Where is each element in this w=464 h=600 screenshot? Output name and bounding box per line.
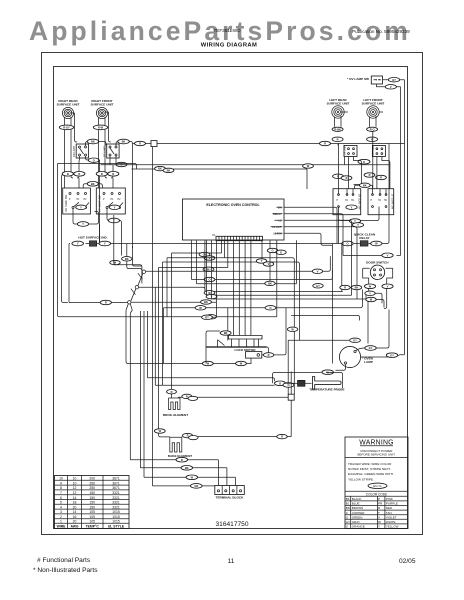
ladder row y315.5	[291, 316, 359, 321]
svg-text:WIRE: WIRE	[57, 524, 67, 528]
wire label oval RF leads	[93, 125, 107, 130]
svg-text:GN-YL: GN-YL	[373, 484, 383, 488]
svg-text:250: 250	[89, 486, 95, 490]
svg-text:14: 14	[73, 496, 77, 500]
wire label ovals broil run	[182, 394, 198, 400]
svg-text:BK: BK	[185, 466, 189, 470]
svg-text:LF SURF SW: LF SURF SW	[391, 194, 394, 210]
svg-text:20: 20	[73, 505, 77, 509]
wire label oval lamp bl	[322, 370, 333, 375]
EOC terminal labels	[272, 205, 282, 235]
surface unit P3 left rear	[327, 98, 350, 118]
svg-text:W: W	[378, 520, 381, 524]
svg-text:V: V	[268, 262, 270, 266]
wire LR limiter bottom to surf sw	[349, 157, 362, 189]
surface switch SW8 left front	[368, 189, 394, 215]
svg-text:R-O: R-O	[370, 127, 375, 131]
wire label oval relay right	[371, 241, 382, 246]
wire L2 drop to LR limiter	[153, 144, 339, 486]
surface unit P4 left front	[362, 98, 385, 118]
svg-text:11: 11	[228, 558, 235, 565]
wire label oval above limiter2	[118, 139, 130, 144]
svg-text:TEMPERATURE PROBE: TEMPERATURE PROBE	[309, 388, 344, 392]
svg-text:Y: Y	[369, 291, 371, 295]
svg-text:R: R	[369, 173, 371, 177]
svg-text:PINK: PINK	[386, 497, 393, 501]
svg-text:6: 6	[60, 496, 62, 500]
wire label ovals above LR limiter	[332, 137, 378, 141]
svg-text:GY: GY	[390, 353, 394, 357]
svg-text:10: 10	[59, 477, 63, 481]
limiter SW3 left rear	[344, 144, 357, 156]
svg-text:O: O	[93, 158, 95, 162]
ladder row y287.2 from pin	[139, 287, 275, 385]
svg-text:GY: GY	[369, 346, 373, 350]
svg-text:3671: 3671	[112, 486, 120, 490]
svg-text:BK: BK	[204, 300, 208, 304]
EOC terminal leader lines	[271, 207, 283, 233]
svg-text:V: V	[387, 253, 389, 257]
svg-text:BLUE: BLUE	[352, 502, 360, 506]
svg-text:Y: Y	[77, 242, 79, 246]
svg-text:R-GY: R-GY	[63, 126, 70, 130]
svg-text:RELAY: RELAY	[359, 236, 370, 240]
svg-text:TRACER WIRE: WIRE COLOR: TRACER WIRE: WIRE COLOR	[348, 462, 392, 466]
svg-text:R-BK: R-BK	[334, 127, 341, 131]
svg-text:V: V	[387, 284, 389, 288]
wire label oval RR leads	[59, 125, 73, 130]
svg-text:RR SURF SW: RR SURF SW	[64, 195, 68, 212]
svg-text:SURFACE UNIT: SURFACE UNIT	[327, 102, 350, 106]
junction square mid left	[288, 394, 294, 400]
ladder row y302.3 right	[131, 301, 216, 303]
svg-text:Publication No. 5995429239: Publication No. 5995429239	[352, 29, 410, 34]
svg-text:150: 150	[89, 501, 95, 505]
svg-text:R: R	[324, 142, 326, 146]
svg-text:VIOLET: VIOLET	[386, 515, 397, 519]
svg-text:ELECTRONIC OVEN CONTROL: ELECTRONIC OVEN CONTROL	[206, 203, 260, 207]
wire run y363 right segment	[267, 347, 269, 353]
warning box	[345, 437, 408, 529]
wire label oval HSI left	[72, 241, 84, 246]
wire label ovals door switch legs	[364, 284, 393, 289]
svg-text:3321: 3321	[112, 505, 120, 509]
wire label oval lamp sw bottom	[385, 85, 396, 89]
svg-text:GY: GY	[346, 520, 350, 524]
wire oven lamp top right	[356, 310, 389, 351]
svg-text:R: R	[186, 395, 188, 399]
svg-text:O: O	[287, 383, 289, 387]
svg-text:* Non-Illustrated Parts: * Non-Illustrated Parts	[33, 567, 98, 574]
wire label oval center y184	[83, 182, 102, 189]
svg-text:R: R	[139, 142, 141, 146]
wire label oval lamp sw top	[388, 78, 399, 82]
svg-text:12: 12	[73, 491, 77, 495]
svg-text:TEF351EWD: TEF351EWD	[213, 28, 241, 33]
junction square on L2 run	[151, 141, 157, 147]
svg-text:EXAMPLE: GREEN WIRE WITH: EXAMPLE: GREEN WIRE WITH	[348, 472, 393, 476]
wire label ovals lock motor bottom	[236, 361, 247, 365]
svg-text:Y: Y	[357, 223, 359, 227]
svg-text:1015: 1015	[112, 515, 120, 519]
svg-text:RED: RED	[386, 506, 393, 510]
svg-text:R: R	[101, 172, 103, 176]
wire RF surf sw bottom	[107, 209, 122, 256]
temperature probe PR1	[275, 377, 345, 392]
wire label oval below RR surf sw	[77, 222, 88, 227]
bake element BK1	[168, 437, 193, 458]
svg-text:# Functional Parts: # Functional Parts	[37, 557, 91, 564]
svg-text:R: R	[181, 458, 183, 462]
svg-text:4: 4	[60, 505, 62, 509]
ladder row y257.7	[144, 241, 294, 478]
wire limiter2 top loop	[116, 142, 133, 249]
wire run y459.7 to terminal	[130, 460, 218, 486]
wire label oval below RF surf sw	[108, 218, 119, 223]
wire left vertical to broil	[61, 174, 67, 303]
wire drop pair below HSI	[110, 257, 132, 265]
svg-text:R: R	[112, 172, 114, 176]
svg-text:02/05: 02/05	[399, 558, 416, 565]
svg-text:V: V	[390, 85, 392, 89]
wire label oval HSI right	[99, 241, 111, 246]
ladder oval y269	[203, 267, 214, 271]
ladder row y253	[140, 241, 221, 468]
wire from lamp switch bottom	[377, 84, 401, 256]
svg-text:R: R	[171, 390, 173, 394]
ladder row y295.3	[207, 240, 383, 303]
ladder oval y302.3	[201, 300, 212, 304]
wire EOC BK out	[284, 207, 337, 243]
svg-text:* OV LAMP SW: * OV LAMP SW	[347, 77, 369, 81]
svg-text:BEFORE SERVICING UNIT.: BEFORE SERVICING UNIT.	[358, 453, 396, 457]
wire label ovals y173.5 row	[62, 172, 119, 177]
svg-text:105: 105	[89, 510, 95, 514]
wire label oval LF leads	[367, 127, 378, 131]
svg-text:10: 10	[73, 481, 77, 485]
wire EOC L2 DSI out	[284, 233, 332, 245]
svg-text:BK: BK	[122, 140, 126, 144]
ladder row y316.8 long	[167, 240, 277, 317]
wire door switch bottom drops	[369, 278, 387, 309]
svg-text:LAMP: LAMP	[364, 360, 373, 364]
ladder ovals y299	[366, 297, 376, 301]
svg-text:316417750: 316417750	[215, 521, 248, 528]
svg-text:TAN: TAN	[386, 511, 392, 515]
svg-text:R: R	[380, 176, 382, 180]
svg-text:Y: Y	[378, 525, 380, 529]
wire leads left rear unit	[335, 112, 349, 127]
wire from lamp switch to right	[383, 80, 405, 355]
svg-text:Y: Y	[351, 205, 353, 209]
wire limiter1 top loop	[86, 142, 107, 147]
svg-text:R: R	[346, 176, 348, 180]
wire label oval pairs above left surf switches	[333, 173, 387, 180]
svg-text:GRAY: GRAY	[352, 520, 360, 524]
wire label ovals bake run	[183, 433, 288, 439]
svg-text:RF SURF SW: RF SURF SW	[97, 195, 101, 212]
svg-text:LR LIMIT: LR LIMIT	[344, 144, 347, 155]
svg-text:NOTED FIRST, STRIPE NEXT.: NOTED FIRST, STRIPE NEXT.	[348, 467, 391, 471]
wire label oval door sw feed	[382, 253, 393, 258]
inner schematic border	[54, 67, 408, 529]
wire lock motor bottom	[164, 358, 252, 363]
svg-text:BU: BU	[207, 267, 211, 271]
svg-text:150: 150	[89, 491, 95, 495]
wire leads right front unit	[99, 112, 111, 142]
lock motor cam bar	[228, 336, 262, 340]
wire label oval below limiter2	[116, 162, 127, 166]
wire label oval on junction vertical	[287, 327, 297, 331]
wire run y485.9 to terminal	[153, 485, 215, 487]
wire label oval below left surf sw	[349, 219, 363, 227]
wire label ovals y169	[155, 166, 174, 172]
svg-text:BK: BK	[224, 331, 228, 335]
svg-text:GY: GY	[353, 338, 357, 342]
wire label oval y459.7	[176, 457, 188, 462]
svg-text:YELLOW STRIPE.: YELLOW STRIPE.	[348, 477, 374, 481]
svg-text:HOT SURFACE IND.: HOT SURFACE IND.	[78, 236, 107, 240]
wire label oval y485.9	[191, 484, 203, 489]
wire label oval LR leads	[332, 127, 343, 131]
svg-text:7: 7	[60, 491, 62, 495]
svg-text:BK: BK	[167, 169, 171, 173]
wire bake to right	[182, 400, 291, 437]
surface unit P1 right rear	[57, 99, 80, 119]
svg-text:BK: BK	[346, 497, 350, 501]
ladder row y283.8	[197, 240, 297, 284]
svg-text:BL: BL	[346, 502, 350, 506]
svg-text:3321: 3321	[112, 491, 120, 495]
wire label oval y302.5	[100, 300, 111, 304]
surface switch SW6 right front	[96, 188, 125, 214]
svg-text:SURFACE UNIT: SURFACE UNIT	[57, 103, 80, 107]
svg-text:R: R	[268, 353, 270, 357]
ladder row oval y253	[199, 252, 215, 260]
oven lamp switch box	[371, 76, 382, 84]
svg-text:8: 8	[60, 486, 62, 490]
ladder row y299	[212, 240, 385, 343]
svg-text:YELLOW: YELLOW	[386, 525, 399, 529]
color code table	[345, 501, 408, 524]
door switch DS1	[363, 265, 393, 279]
wire label oval mid LR surf sw	[346, 205, 357, 209]
wire hot surface ind run y243.5	[69, 215, 332, 303]
svg-text:150: 150	[89, 496, 95, 500]
wire label oval on L2 run	[135, 141, 146, 145]
svg-text:GY: GY	[205, 315, 209, 319]
svg-text:V: V	[378, 515, 380, 519]
ladder oval y283.8	[265, 281, 275, 285]
wire leads right rear unit	[65, 113, 78, 142]
wire run y302.5 to pin	[69, 302, 128, 304]
svg-text:UL STYLE: UL STYLE	[108, 524, 125, 528]
svg-text:SURFACE UNIT: SURFACE UNIT	[362, 102, 385, 106]
surface switch SW5 right rear	[63, 188, 91, 214]
oven lamp L1	[339, 346, 360, 367]
svg-text:1: 1	[60, 520, 62, 524]
limiter SW2 right front	[103, 144, 119, 158]
ladder oval y271.3	[312, 269, 322, 273]
svg-text:TERMINAL BLOCK: TERMINAL BLOCK	[216, 495, 245, 499]
svg-text:BK: BK	[355, 286, 359, 290]
wire run y477.3 to terminal	[144, 477, 235, 485]
wire EOC RELAY out	[284, 214, 343, 256]
ladder oval y307	[195, 306, 276, 310]
svg-text:12: 12	[73, 486, 77, 490]
svg-text:Y: Y	[114, 205, 116, 209]
surface switch SW7 left rear	[333, 189, 361, 215]
lock motor assembly	[164, 240, 287, 366]
svg-text:GY: GY	[392, 78, 396, 82]
svg-text:3321: 3321	[112, 496, 120, 500]
svg-text:1015: 1015	[112, 520, 120, 524]
wire label ovals below right limiters	[358, 159, 370, 164]
ladder row y291.5	[205, 241, 362, 292]
wire label oval lamp feed	[350, 338, 361, 342]
lock motor bus	[206, 346, 267, 348]
svg-text:BK: BK	[125, 257, 129, 261]
svg-text:V: V	[209, 256, 211, 260]
wire label oval above lock	[220, 331, 231, 335]
limiter SW1 right rear	[72, 144, 88, 158]
terminal block TB1	[215, 486, 245, 500]
wire label oval relay left	[342, 241, 353, 246]
svg-text:O: O	[363, 160, 365, 164]
svg-text:WIRING DIAGRAM: WIRING DIAGRAM	[201, 43, 257, 49]
wire label oval lock motor right	[263, 353, 273, 357]
wire label oval y477.3	[186, 475, 198, 480]
wire RR surf sw bottom	[73, 209, 99, 225]
svg-text:Y: Y	[104, 242, 106, 246]
wire bake feed left	[159, 433, 170, 437]
svg-text:LR SURF SW: LR SURF SW	[358, 194, 361, 210]
wire oven lamp bottom left	[320, 364, 346, 372]
wire run y169	[58, 164, 308, 317]
svg-text:3: 3	[60, 510, 62, 514]
svg-text:Y: Y	[80, 205, 82, 209]
svg-text:COPPER: COPPER	[352, 511, 366, 515]
electronic oven control box	[183, 199, 285, 240]
svg-text:WHITE: WHITE	[386, 520, 396, 524]
svg-text:V: V	[317, 269, 319, 273]
svg-text:O: O	[208, 278, 210, 282]
svg-text:T: T	[378, 511, 380, 515]
ladder row y271.3	[146, 256, 331, 271]
lock switch lever	[218, 340, 225, 348]
svg-text:5: 5	[60, 501, 62, 505]
connector pin circles left	[114, 246, 142, 283]
svg-text:SURFACE UNIT: SURFACE UNIT	[91, 103, 114, 107]
svg-text:O: O	[280, 250, 282, 254]
svg-text:ORANGE: ORANGE	[352, 525, 365, 529]
wire top long run L2	[133, 143, 405, 145]
ladder row y307	[164, 290, 363, 364]
svg-text:10: 10	[73, 477, 77, 481]
wire EOC L2 OUT out	[284, 227, 357, 299]
wire broil to junction	[179, 396, 289, 399]
svg-text:O: O	[279, 381, 281, 385]
svg-text:R: R	[67, 172, 69, 176]
hot surface indicator lamp	[89, 241, 96, 246]
svg-text:14: 14	[73, 510, 77, 514]
svg-text:PURPLE: PURPLE	[386, 502, 398, 506]
wire run y467.8 to terminal	[140, 468, 227, 486]
tracer example oval	[368, 483, 387, 488]
wire limiter1 bottom	[80, 156, 100, 244]
svg-text:R: R	[344, 286, 346, 290]
svg-text:COLOR CODE: COLOR CODE	[366, 492, 387, 496]
svg-text:GN: GN	[194, 484, 198, 488]
svg-text:GREEN: GREEN	[352, 515, 363, 519]
wire label oval bake left	[154, 429, 165, 433]
svg-text:BK: BK	[91, 182, 95, 186]
wire relay run y243.5	[332, 144, 389, 364]
svg-text:1015: 1015	[112, 510, 120, 514]
svg-text:2: 2	[60, 515, 62, 519]
wire run y164	[101, 157, 390, 165]
surface unit P2 right front	[91, 99, 114, 119]
svg-text:105: 105	[89, 515, 95, 519]
relay coil box	[360, 241, 368, 246]
limiter SW4 left front	[372, 145, 385, 157]
svg-text:3321: 3321	[112, 501, 120, 505]
svg-text:AWG: AWG	[70, 524, 78, 528]
svg-text:WARNING: WARNING	[359, 439, 393, 446]
wire lamp feed y340.3	[288, 340, 349, 394]
wire oven lamp right	[361, 355, 405, 357]
svg-text:3671: 3671	[112, 477, 120, 481]
wire probe top run y372.5	[273, 373, 343, 389]
broil element BR1	[163, 371, 188, 417]
svg-text:BK: BK	[268, 282, 272, 286]
svg-text:BK: BK	[158, 167, 162, 171]
wire limiter2 bottom	[110, 156, 116, 165]
wire label oval y467.8	[181, 466, 193, 471]
svg-text:16: 16	[73, 515, 77, 519]
svg-text:O: O	[346, 242, 348, 246]
svg-text:DOOR SWITCH: DOOR SWITCH	[366, 260, 389, 264]
svg-text:150: 150	[89, 505, 95, 509]
svg-text:BROWN: BROWN	[352, 506, 364, 510]
wire lock bus drops	[206, 331, 228, 364]
svg-text:R: R	[281, 435, 283, 439]
svg-text:BK: BK	[363, 183, 367, 187]
svg-text:P1: P1	[212, 233, 216, 237]
wire door switch feed y255.5	[343, 255, 401, 257]
svg-text:P: P	[378, 497, 380, 501]
svg-text:105: 105	[89, 520, 95, 524]
wire LF limiter bottom	[377, 157, 390, 189]
svg-text:R: R	[105, 301, 107, 305]
EOC connector P1 comb	[212, 233, 262, 241]
wire label oval below limiter1	[88, 158, 99, 162]
svg-text:BLACK: BLACK	[352, 497, 362, 501]
ladder oval y279.5	[204, 277, 323, 288]
svg-text:18: 18	[73, 501, 77, 505]
wire label ovals y164	[303, 164, 314, 168]
svg-text:9: 9	[60, 481, 62, 485]
wire label ovals below EOC right	[267, 248, 286, 254]
svg-text:BK: BK	[91, 140, 95, 144]
svg-text:R: R	[78, 172, 80, 176]
svg-text:R-W: R-W	[98, 126, 104, 130]
wire comb to cam verticals	[234, 241, 251, 336]
wire label oval above limiter1	[87, 139, 99, 144]
ladder ovals y291.5	[204, 285, 362, 295]
wire label oval before LR limiter	[320, 141, 331, 145]
outer page border	[42, 53, 423, 535]
